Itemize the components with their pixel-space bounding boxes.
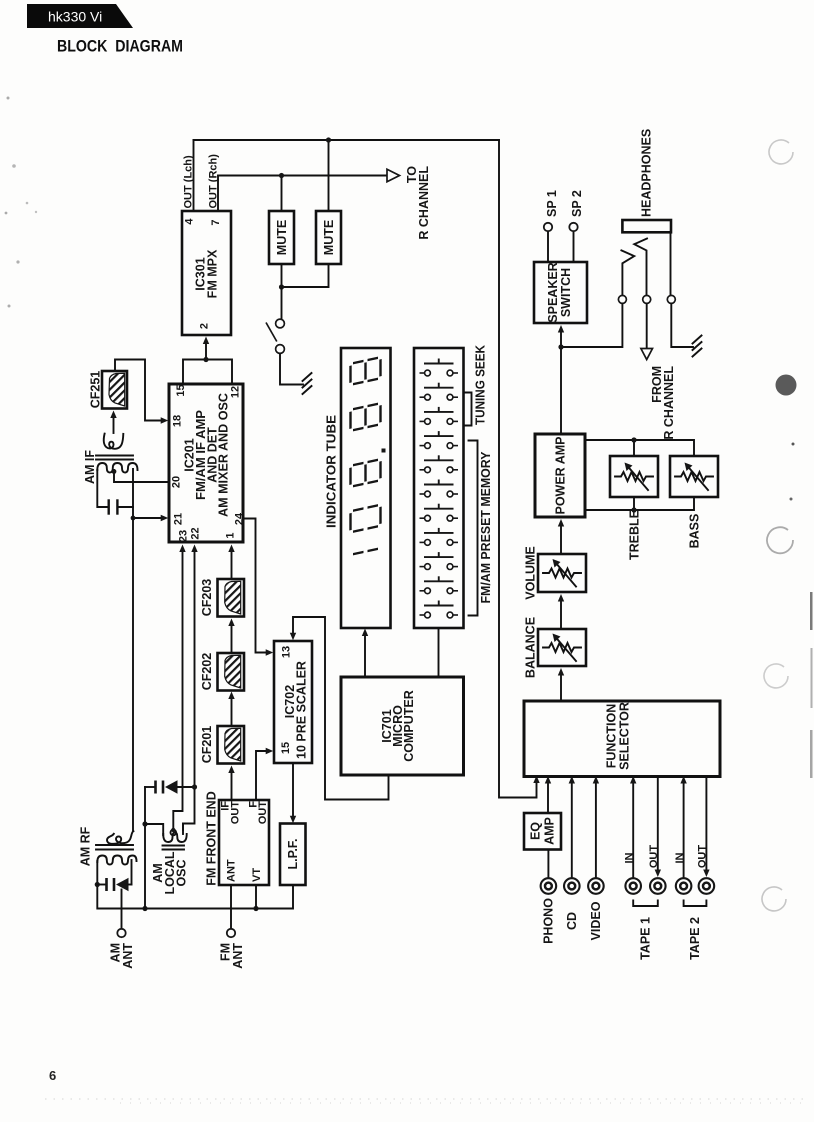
- CF203 ceramic filter: [218, 579, 245, 617]
- SP2 terminal: [569, 223, 577, 231]
- wire: PHONO jack to EQ AMP: [547, 850, 549, 879]
- junction dot: [279, 173, 284, 178]
- arrow into function selector (feedback): [533, 776, 539, 784]
- key switch 2 (TUNING): [420, 383, 459, 400]
- IC701 micro computer box: [341, 677, 464, 775]
- svg-text:15: 15: [175, 384, 187, 396]
- wire: volume to power amp: [560, 523, 562, 555]
- svg-text:23: 23: [178, 530, 190, 542]
- 7-seg digit 8: [351, 403, 381, 430]
- svg-text:IN: IN: [674, 852, 686, 863]
- mute switch contacts and arm: [266, 319, 284, 353]
- wire+arrow: TAPE2 OUT: [705, 777, 707, 874]
- svg-text:OUT: OUT: [230, 801, 242, 825]
- headphone jack tip contact: [634, 239, 647, 296]
- wire: AM IF center tap to IC201 pin 20: [114, 470, 169, 482]
- CD jack: [564, 878, 580, 894]
- bracket FM/AM PRESET MEMORY: [469, 441, 478, 616]
- svg-text:PHONO: PHONO: [542, 898, 556, 944]
- svg-text:AMP: AMP: [543, 817, 557, 845]
- wire: pin 23 down to AM local osc center tap: [173, 548, 182, 829]
- junction dot AM RF varactor: [95, 882, 100, 887]
- FM FRONT END box: [219, 800, 269, 885]
- svg-text:FM MPX: FM MPX: [206, 249, 220, 298]
- wire: VT stub: [255, 885, 257, 909]
- key switch 5 (preset): [420, 455, 459, 472]
- key matrix box: [414, 348, 464, 628]
- header banner hk330 Vi: [27, 4, 133, 28]
- wire: function selector to balance: [560, 672, 562, 702]
- svg-text:ANT: ANT: [231, 943, 245, 969]
- wire: MUTE2 top stub: [328, 140, 330, 211]
- wire: balance to volume: [560, 598, 562, 630]
- IC301 FM MPX box: [182, 211, 231, 335]
- svg-text:BASS: BASS: [688, 514, 702, 549]
- svg-text:ANT: ANT: [121, 943, 135, 969]
- wire: MUTE bottoms join: [281, 264, 283, 287]
- svg-text:ANT: ANT: [226, 859, 238, 882]
- svg-text:TUNING SEEK: TUNING SEEK: [474, 345, 488, 425]
- svg-text:BLOCK DIAGRAM: BLOCK DIAGRAM: [57, 37, 183, 56]
- AM RF core: [96, 844, 133, 846]
- key switch 11 (preset): [420, 601, 459, 618]
- key switch 7 (preset): [420, 504, 459, 521]
- svg-text:EQ: EQ: [529, 822, 543, 840]
- headphone jack sleeve lead: [670, 232, 672, 295]
- wire: IC301 pin7 OUT(Rch) stub: [217, 176, 219, 212]
- svg-text:SP 2: SP 2: [570, 190, 584, 217]
- junction dot osc coil tap: [142, 821, 147, 826]
- junction dot on pin22 line: [192, 784, 197, 789]
- svg-text:SPEAKER: SPEAKER: [546, 262, 560, 322]
- wire: tone rail top: [585, 440, 694, 456]
- key switch 1 (SEEK): [420, 359, 459, 376]
- svg-text:FUNCTION: FUNCTION: [605, 704, 619, 769]
- BALANCE pot box: [538, 629, 586, 666]
- open triangle TO R CHANNEL: [387, 169, 400, 181]
- svg-text:IN: IN: [623, 852, 635, 863]
- wire: IC702 to LPF: [292, 763, 294, 820]
- wire: down to mute switch: [281, 287, 283, 319]
- arrow: AM IF transformer up into CF251: [113, 415, 115, 433]
- svg-text:OUT: OUT: [257, 801, 269, 825]
- 7-seg digit 1: [353, 549, 378, 554]
- L.P.F. box: [280, 824, 306, 886]
- 7-seg digit 8: [351, 459, 381, 486]
- svg-text:2: 2: [199, 323, 211, 329]
- headphone jack ring contact: [621, 250, 634, 295]
- wire: key matrix to IC701: [438, 628, 440, 677]
- scan artifacts: punch-hole arcs right edge: [762, 140, 796, 911]
- key switch 8 (preset): [420, 528, 459, 545]
- wire: LPF to VT tuning bus: [97, 885, 293, 909]
- svg-text:4: 4: [184, 218, 196, 225]
- svg-text:FM/AM PRESET MEMORY: FM/AM PRESET MEMORY: [479, 451, 493, 604]
- svg-text:R CHANNEL: R CHANNEL: [417, 166, 431, 240]
- wire: AM ANT stem: [121, 890, 123, 929]
- junction dot: [279, 284, 284, 289]
- wire: AM IF to IC201 pin 21 and long line to AM RF: [133, 507, 165, 518]
- AM RF transformer secondary coil: [107, 831, 133, 844]
- svg-text:21: 21: [173, 513, 185, 525]
- wire: IC301 pin4 OUT(Lch) up to top rail: [193, 140, 195, 211]
- POWER AMP box: [535, 434, 585, 517]
- MUTE box 2: [316, 211, 341, 264]
- svg-text:POWER AMP: POWER AMP: [554, 436, 568, 514]
- TAPE2 IN jack: [676, 878, 692, 894]
- wire: MUTE1 top stub: [281, 176, 283, 212]
- scan artifacts: bottom speckle band: [45, 1099, 810, 1103]
- arrow: FM front end IF OUT to CF201: [231, 769, 233, 800]
- svg-text:AM MIXER AND OSC: AM MIXER AND OSC: [217, 393, 231, 517]
- bracket TAPE 2: [684, 901, 707, 907]
- wire: left contact to amp output: [561, 304, 622, 348]
- svg-text:VOLUME: VOLUME: [524, 546, 538, 599]
- svg-text:CF201: CF201: [200, 726, 214, 764]
- svg-text:OUT (Rch): OUT (Rch): [208, 154, 220, 209]
- wire: SP1 stub: [547, 232, 549, 263]
- headphone jack: [622, 220, 671, 232]
- AM local osc coil: [145, 824, 187, 850]
- AM local osc varactor: capacitor + diode: [145, 780, 195, 793]
- IC702 prescaler box: [274, 641, 312, 763]
- svg-text:AM RF: AM RF: [79, 826, 93, 866]
- PHONO jack: [541, 878, 557, 894]
- junction dot VT: [253, 906, 258, 911]
- svg-text:R CHANNEL: R CHANNEL: [662, 366, 676, 440]
- key switch 9 (preset): [420, 552, 459, 569]
- open triangle FROM R CHANNEL: [641, 349, 653, 360]
- wire: EQ AMP to function selector: [547, 780, 549, 814]
- AM IF transformer: [96, 434, 138, 473]
- CF201 ceramic filter: [218, 726, 245, 764]
- junction dot: [326, 137, 331, 142]
- svg-text:SELECTOR: SELECTOR: [618, 702, 632, 770]
- FM ANT terminal: [227, 929, 235, 937]
- TAPE1 IN jack: [625, 878, 641, 894]
- wire: top rail (Lch) to right side: [194, 139, 500, 141]
- wire: IC701 to IC702 control: [293, 617, 389, 800]
- VOLUME pot box: [538, 554, 586, 592]
- IC201 box: [169, 384, 243, 542]
- arrow: CF201 to CF202: [231, 695, 233, 726]
- wire: pin 22 down to AM local osc right end: [183, 548, 195, 830]
- svg-text:1: 1: [225, 532, 237, 538]
- svg-text:FM FRONT END: FM FRONT END: [205, 791, 219, 885]
- ground (chassis) at mute switch: [303, 373, 312, 394]
- ground (chassis) at headphones: [693, 336, 702, 357]
- svg-text:HEADPHONES: HEADPHONES: [640, 129, 654, 217]
- EQ AMP box: [524, 813, 561, 850]
- AM RF primary leads: [96, 861, 98, 885]
- wire: FM ANT to front end: [230, 885, 232, 929]
- svg-text:VT: VT: [251, 868, 263, 882]
- svg-text:OUT: OUT: [648, 845, 660, 869]
- junction dot osc branch: [142, 906, 147, 911]
- svg-text:CF251: CF251: [89, 371, 103, 409]
- decimal point: [382, 449, 386, 453]
- wire: osc varactor to bus: [144, 787, 146, 909]
- svg-text:TREBLE: TREBLE: [628, 510, 642, 560]
- wire: CF203 to IC201 pin 1: [231, 548, 233, 579]
- wire: IC201 pins 15/12 bus to IC301 pin 2: [183, 360, 232, 385]
- wire: IC201 pin 24 to IC702 pin 13: [243, 519, 270, 653]
- wire: right contact to ground: [671, 304, 693, 348]
- wire: power amp to speaker switch: [560, 329, 562, 435]
- AM IF primary capacitor: [97, 469, 133, 514]
- 7-seg digit 0: [351, 505, 381, 532]
- svg-text:TAPE 2: TAPE 2: [688, 917, 702, 960]
- svg-text:20: 20: [171, 476, 183, 488]
- wire+arrow: TAPE1 IN: [632, 780, 634, 879]
- svg-text:TAPE 1: TAPE 1: [639, 917, 653, 960]
- svg-text:22: 22: [190, 527, 202, 539]
- wire: switch to ground: [280, 354, 303, 385]
- wire: SP2 stub: [573, 232, 575, 263]
- FUNCTION SELECTOR box: [524, 701, 720, 777]
- svg-text:SP 1: SP 1: [545, 190, 559, 217]
- INDICATOR TUBE box: [341, 348, 391, 628]
- svg-text:COMPUTER: COMPUTER: [402, 690, 416, 762]
- SP1 terminal: [544, 223, 552, 231]
- wire+arrow: CD input: [571, 780, 573, 879]
- svg-text:OUT: OUT: [697, 845, 709, 869]
- svg-text:L.P.F.: L.P.F.: [286, 838, 300, 869]
- BASS pot box: [670, 456, 718, 497]
- bracket TAPE 1: [633, 901, 658, 907]
- svg-text:CF203: CF203: [200, 579, 214, 617]
- svg-text:VIDEO: VIDEO: [589, 901, 603, 940]
- key switch 4 (preset): [420, 431, 459, 448]
- TREBLE pot box: [610, 456, 658, 497]
- key switch 3 (TUNING): [420, 407, 459, 424]
- arrow: CF202 to CF203: [231, 622, 233, 653]
- VIDEO jack: [588, 878, 604, 894]
- wire+arrow: TAPE2 IN: [683, 780, 685, 879]
- TAPE2 OUT jack: [699, 878, 715, 894]
- wire: CF251 to IC201 pin 18: [115, 360, 165, 421]
- 7-seg digit 8: [351, 357, 381, 384]
- svg-text:7: 7: [210, 219, 222, 225]
- scan artifacts: edge speckles: [5, 97, 813, 779]
- wire: middle contact from R channel: [646, 304, 648, 349]
- CF251 ceramic filter: [102, 371, 127, 409]
- svg-text:BALANCE: BALANCE: [524, 617, 538, 678]
- AM RF varactor: capacitor + diode: [97, 878, 131, 891]
- wire: right-side vertical feedback run: [499, 140, 537, 798]
- svg-text:SWITCH: SWITCH: [559, 268, 573, 317]
- svg-text:AM IF: AM IF: [83, 450, 97, 484]
- svg-text:INDICATOR TUBE: INDICATOR TUBE: [325, 415, 339, 528]
- svg-text:CD: CD: [565, 912, 579, 930]
- wire: Rch line to triangle: [218, 175, 387, 177]
- AM RF primary coil: [97, 856, 136, 865]
- wire+arrow: TAPE1 OUT: [657, 777, 659, 874]
- wire+arrow: VIDEO input: [595, 780, 597, 879]
- svg-text:12: 12: [230, 386, 242, 398]
- svg-text:13: 13: [281, 646, 293, 658]
- svg-text:MUTE: MUTE: [322, 220, 336, 255]
- wire: IC701 to indicator tube: [364, 632, 366, 677]
- svg-text:15: 15: [280, 742, 292, 754]
- svg-text:MUTE: MUTE: [275, 220, 289, 255]
- AM ANT terminal: [117, 929, 125, 937]
- wire: tone rail bottom: [585, 497, 694, 510]
- svg-text:hk330 Vi: hk330 Vi: [48, 9, 102, 25]
- CF202 ceramic filter: [218, 653, 245, 691]
- key switch 6 (preset): [420, 480, 459, 497]
- wire: FM front end F OUT to IC702 pin 15: [256, 751, 270, 800]
- svg-text:6: 6: [49, 1068, 56, 1083]
- svg-text:10 PRE SCALER: 10 PRE SCALER: [295, 661, 309, 759]
- SPEAKER SWITCH box: [534, 262, 587, 323]
- svg-text:OUT (Lch): OUT (Lch): [183, 155, 195, 208]
- bracket TUNING: [465, 393, 472, 426]
- svg-text:18: 18: [172, 415, 184, 427]
- svg-text:OSC: OSC: [175, 859, 189, 886]
- contact circles: [618, 295, 626, 303]
- TAPE1 OUT jack: [650, 878, 666, 894]
- MUTE box 1: [269, 211, 294, 264]
- svg-text:CF202: CF202: [200, 653, 214, 691]
- key switch 10 (preset): [420, 576, 459, 593]
